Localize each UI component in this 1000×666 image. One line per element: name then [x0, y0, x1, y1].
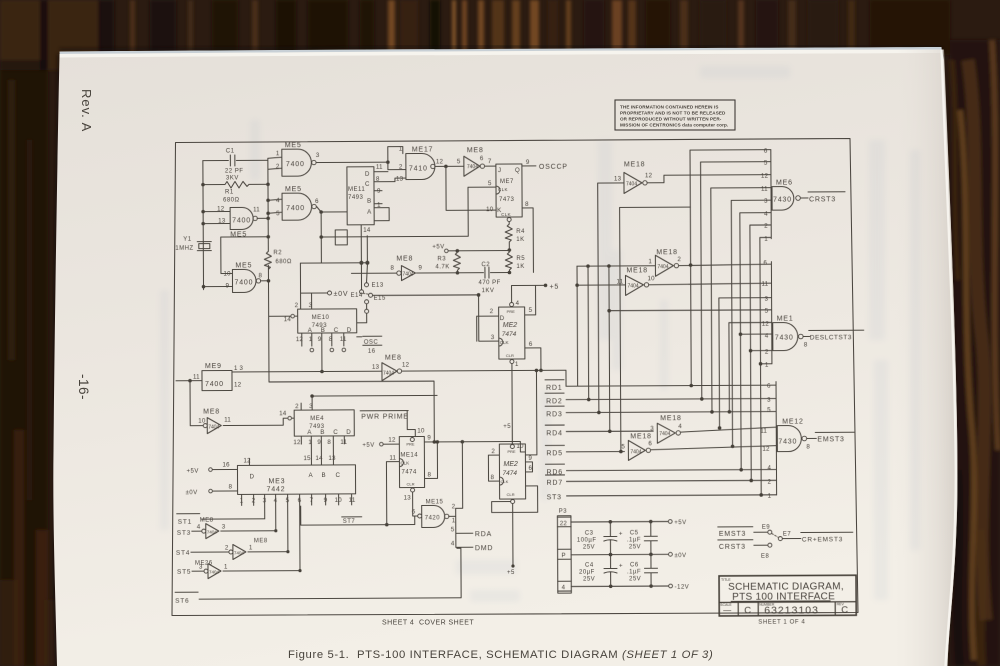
svg-text:11: 11 [224, 416, 231, 423]
svg-text:8: 8 [329, 336, 333, 343]
svg-text:CLK: CLK [400, 461, 409, 466]
svg-text:RD4: RD4 [546, 430, 562, 437]
node OSC/16 [357, 336, 362, 338]
wire ME5a out to ME17 [316, 147, 406, 170]
svg-text:1: 1 [764, 236, 768, 243]
svg-text:4: 4 [562, 584, 566, 591]
svg-text:5: 5 [451, 526, 455, 533]
svg-text:A: A [367, 209, 372, 216]
svg-text:7404: 7404 [234, 550, 245, 555]
svg-text:ST3: ST3 [547, 494, 562, 501]
wire ME2a Q [525, 285, 536, 315]
svg-text:2: 2 [399, 164, 403, 171]
svg-text:7: 7 [310, 497, 314, 504]
wire -12V row [571, 585, 668, 588]
svg-text:RDA: RDA [475, 531, 492, 538]
svg-text:E9: E9 [762, 525, 771, 531]
svg-text:9: 9 [317, 439, 321, 446]
svg-text:11: 11 [389, 455, 396, 462]
svg-text:3: 3 [491, 334, 495, 341]
wire 0V row [571, 553, 668, 556]
svg-text:+5: +5 [550, 284, 560, 291]
svg-text:Q: Q [515, 167, 520, 174]
svg-text:11: 11 [376, 164, 383, 171]
svg-text:5: 5 [767, 407, 771, 414]
svg-text:2: 2 [295, 302, 299, 309]
node RD4 [545, 425, 653, 432]
capacitor C3 [604, 522, 617, 555]
node DESLCTST3 [803, 330, 864, 336]
svg-text:13: 13 [614, 175, 622, 182]
svg-text:7493: 7493 [348, 195, 364, 201]
capacitor C4 [604, 555, 617, 587]
svg-text:6: 6 [480, 155, 484, 162]
svg-text:ME6: ME6 [776, 180, 793, 187]
svg-text:ME2: ME2 [503, 322, 518, 329]
svg-text:ME5: ME5 [285, 142, 302, 149]
page cast shadow on wood [53, 54, 59, 666]
svg-text:R5: R5 [516, 256, 525, 262]
node ST6 [175, 548, 461, 599]
svg-text:25V: 25V [583, 577, 595, 583]
svg-text:ME3: ME3 [269, 478, 286, 485]
node +-0V terminal [328, 291, 332, 295]
svg-text:2: 2 [252, 497, 256, 504]
svg-text:6: 6 [763, 260, 767, 267]
node DMD [456, 546, 473, 548]
svg-text:4: 4 [765, 333, 769, 340]
svg-text:ME17: ME17 [412, 146, 434, 153]
wire C1 top row [203, 157, 282, 184]
svg-text:7404: 7404 [402, 272, 413, 278]
svg-text:2: 2 [677, 256, 681, 263]
svg-text:14: 14 [315, 455, 323, 462]
node CRST3 [801, 192, 846, 198]
svg-text:ME18: ME18 [656, 249, 678, 256]
nand ME5 d [232, 269, 256, 292]
flip-flop ME2 7474 second [499, 444, 525, 499]
svg-text:±0V: ±0V [186, 490, 198, 496]
flip-flop ME2 7474 first [499, 307, 525, 359]
nand ME5 c [230, 207, 253, 229]
wire ME5b inputs [268, 184, 282, 251]
svg-text:DESLCTST3: DESLCTST3 [810, 334, 852, 341]
svg-text:15: 15 [303, 455, 311, 462]
svg-text:10: 10 [335, 497, 343, 504]
wire row y380 [269, 315, 435, 442]
svg-text:1: 1 [308, 439, 312, 446]
svg-text:ME8: ME8 [467, 147, 484, 154]
svg-text:E14: E14 [351, 293, 363, 299]
svg-text:B: B [321, 472, 325, 479]
svg-text:13: 13 [396, 176, 404, 183]
svg-text:4.7K: 4.7K [435, 264, 449, 270]
svg-text:RD1: RD1 [546, 385, 562, 392]
svg-text:5: 5 [457, 158, 461, 165]
svg-text:ME18: ME18 [660, 415, 682, 422]
svg-text:8: 8 [525, 201, 529, 208]
inverter ME8 a [464, 156, 480, 176]
node RD1 [545, 379, 776, 387]
svg-text:11: 11 [349, 497, 356, 504]
svg-text:ME14: ME14 [400, 453, 418, 459]
svg-text:ME8: ME8 [203, 409, 220, 416]
counter ME10 7493 [298, 309, 357, 333]
node PWR PRIME [360, 411, 415, 437]
svg-text:7400: 7400 [232, 217, 251, 224]
svg-text:ME4: ME4 [310, 416, 324, 422]
svg-text:RD3: RD3 [546, 411, 562, 418]
decoder ME3 7442 [237, 465, 355, 495]
wire ME14 Q out [424, 441, 525, 452]
svg-text:+: + [619, 530, 623, 537]
resistor R3 [453, 251, 460, 273]
svg-text:1: 1 [768, 493, 772, 500]
svg-text:11: 11 [340, 336, 347, 343]
svg-text:CLR: CLR [507, 492, 515, 497]
nand ME6 7430 [770, 150, 772, 239]
svg-text:OR REPRODUCED WITHOUT WRITTEN: OR REPRODUCED WITHOUT WRITTEN PER- [620, 117, 722, 122]
svg-text:8: 8 [804, 341, 808, 348]
node RD5 [545, 445, 624, 452]
svg-text:+5V: +5V [186, 469, 198, 475]
svg-text:13: 13 [404, 495, 412, 502]
wire ME17 out [435, 165, 463, 167]
wire ME14 CLR [411, 488, 415, 492]
capacitor C6 [644, 554, 657, 586]
svg-text:12: 12 [762, 446, 770, 453]
svg-text:4: 4 [276, 197, 280, 204]
svg-text:ST1: ST1 [178, 519, 192, 526]
wire ME2a CLR down to ME2b [510, 360, 514, 364]
svg-text:±0V: ±0V [334, 291, 349, 298]
wire ME5c [203, 211, 268, 223]
svg-text:1: 1 [249, 544, 253, 551]
svg-text:ME18: ME18 [626, 267, 648, 274]
svg-text:4: 4 [767, 465, 771, 472]
svg-text:12: 12 [762, 321, 770, 328]
svg-text:A: A [308, 472, 313, 479]
wire ME2b CLR to +5 [511, 500, 515, 504]
capacitor C2 [457, 267, 509, 278]
svg-text:5: 5 [621, 443, 625, 450]
svg-text:1K: 1K [516, 237, 524, 243]
svg-text:MISSION OF CENTRONICS data com: MISSION OF CENTRONICS data computer corp… [620, 123, 728, 128]
svg-text:6: 6 [767, 383, 771, 390]
inverter ME8 c [382, 363, 397, 381]
wire ME5b out to ME11 [317, 206, 348, 212]
svg-text:THE INFORMATION CONTAINED HERE: THE INFORMATION CONTAINED HEREIN IS [620, 105, 719, 110]
svg-text:3: 3 [316, 152, 320, 159]
svg-text:ME10: ME10 [312, 315, 330, 321]
svg-text:.1µF: .1µF [627, 537, 641, 543]
wire left rail [202, 161, 205, 290]
svg-text:D: D [346, 429, 351, 436]
wire ME14 pin11 [386, 462, 399, 525]
svg-text:C2: C2 [481, 262, 490, 268]
svg-text:ME5: ME5 [235, 262, 252, 269]
nand ME17 7410 [406, 153, 435, 179]
svg-text:9: 9 [526, 159, 530, 166]
node ST3 bus [567, 495, 777, 496]
capacitor C5 [644, 522, 657, 555]
node EMST3 jumper in [718, 527, 768, 533]
svg-text:CLR: CLR [506, 353, 514, 358]
svg-text:2: 2 [490, 308, 494, 315]
svg-text:E15: E15 [374, 296, 386, 302]
svg-text:12: 12 [761, 173, 769, 180]
svg-text:ME7: ME7 [500, 179, 514, 185]
svg-text:E8: E8 [761, 554, 770, 560]
nand ME9 7400 [202, 370, 232, 390]
svg-text:1: 1 [240, 497, 244, 504]
svg-text:ME8: ME8 [200, 518, 214, 524]
svg-text:ST7: ST7 [343, 519, 356, 525]
svg-text:P: P [561, 552, 565, 559]
connector P3 [557, 516, 571, 593]
svg-text:7410: 7410 [409, 165, 428, 172]
svg-text:1: 1 [399, 146, 403, 153]
svg-text:ME5: ME5 [285, 186, 302, 193]
svg-text:4: 4 [516, 300, 520, 307]
svg-text:ME8: ME8 [254, 538, 268, 544]
svg-text:13: 13 [328, 455, 336, 462]
svg-text:7442: 7442 [267, 486, 286, 493]
svg-text:9: 9 [324, 497, 328, 504]
svg-text:P3: P3 [559, 509, 568, 515]
svg-text:11: 11 [340, 439, 347, 446]
svg-text:9: 9 [418, 264, 422, 271]
svg-text:OSCCP: OSCCP [539, 164, 568, 171]
svg-text:2: 2 [452, 503, 456, 510]
svg-text:5: 5 [529, 307, 533, 314]
svg-text:9: 9 [318, 336, 322, 343]
svg-text:7404: 7404 [630, 449, 641, 455]
svg-text:R3: R3 [437, 256, 446, 262]
nand ME5 a [282, 149, 312, 176]
wire ME10 pin14 [269, 315, 298, 317]
svg-text:ME2: ME2 [503, 461, 518, 468]
svg-text:7474: 7474 [502, 331, 517, 338]
svg-text:3: 3 [263, 497, 267, 504]
svg-text:7430: 7430 [775, 335, 794, 342]
svg-text:5: 5 [764, 160, 768, 167]
svg-text:RD7: RD7 [547, 480, 563, 487]
wire mesh verticals [576, 266, 579, 386]
svg-text:20µF: 20µF [579, 570, 595, 576]
svg-text:C: C [841, 605, 848, 616]
svg-text:7400: 7400 [286, 205, 305, 212]
svg-text:7474: 7474 [502, 470, 517, 477]
svg-text:ME18: ME18 [624, 161, 646, 168]
svg-text:PRE: PRE [507, 449, 516, 454]
nand ME5 b [282, 193, 312, 220]
svg-text:100µF: 100µF [577, 538, 597, 544]
svg-text:63213103: 63213103 [764, 604, 819, 616]
svg-text:1: 1 [276, 150, 280, 157]
svg-text:D: D [347, 327, 352, 334]
svg-text:B: B [367, 198, 371, 205]
svg-text:2: 2 [225, 545, 229, 552]
wire ME1 rows [609, 309, 771, 312]
svg-text:7: 7 [488, 158, 492, 165]
svg-text:3: 3 [199, 564, 203, 571]
wire ME7 clk bottom [507, 218, 511, 222]
faint show-through smudges [160, 66, 920, 602]
wire ME2a Qbar [525, 348, 541, 371]
svg-text:14: 14 [279, 410, 287, 417]
svg-text:6: 6 [764, 148, 768, 155]
svg-text:CRST3: CRST3 [719, 544, 746, 551]
svg-text:PRE: PRE [507, 309, 516, 314]
svg-text:7404: 7404 [659, 431, 670, 437]
svg-text:12: 12 [645, 172, 653, 179]
svg-text:7420: 7420 [425, 515, 441, 521]
node RD7 [546, 474, 777, 482]
svg-text:3: 3 [764, 198, 768, 205]
svg-text:1: 1 [515, 361, 519, 368]
svg-text:8: 8 [806, 443, 810, 450]
svg-text:16: 16 [222, 461, 230, 468]
svg-text:+: + [619, 562, 623, 569]
svg-text:11: 11 [253, 206, 260, 213]
svg-text:J: J [498, 167, 501, 174]
svg-text:1K: 1K [516, 264, 524, 270]
svg-text:Y1: Y1 [183, 237, 192, 243]
svg-text:PROPRIETARY AND IS NOT TO BE R: PROPRIETARY AND IS NOT TO BE RELEASED [620, 111, 726, 116]
wire +5V row [571, 520, 668, 523]
node ST1 [177, 513, 265, 519]
svg-text:5: 5 [488, 180, 492, 187]
wire ME3 bottom pins [242, 494, 352, 571]
svg-text:3: 3 [222, 524, 226, 531]
svg-text:+5: +5 [507, 570, 515, 576]
svg-text:2: 2 [768, 479, 772, 486]
svg-text:CLK: CLK [501, 212, 511, 217]
svg-text:6: 6 [412, 509, 416, 516]
wire ME8c out [402, 370, 566, 455]
node EMST3 [807, 432, 855, 438]
svg-text:8: 8 [491, 474, 495, 481]
flip-flop ME7 7473 [496, 164, 522, 217]
svg-text:11: 11 [761, 281, 768, 288]
wire ME2a D [477, 316, 499, 341]
wire ME4 top pins [301, 395, 437, 410]
svg-text:10: 10 [516, 443, 524, 450]
svg-text:2: 2 [491, 448, 495, 455]
svg-text:1: 1 [224, 564, 228, 571]
svg-text:R4: R4 [516, 229, 525, 235]
svg-text:±0V: ±0V [674, 553, 686, 559]
wire ME18a out [647, 175, 771, 183]
svg-text:16: 16 [368, 349, 376, 355]
svg-text:7404: 7404 [209, 570, 220, 575]
svg-text:PRE: PRE [406, 442, 415, 447]
svg-text:4: 4 [764, 211, 768, 218]
wire jog rect [335, 230, 347, 245]
svg-text:1 3: 1 3 [234, 365, 244, 372]
svg-text:ME1: ME1 [777, 316, 794, 323]
svg-text:8: 8 [427, 471, 431, 478]
svg-text:-16-: -16- [76, 374, 91, 400]
svg-text:ST6: ST6 [175, 598, 189, 605]
svg-text:ME8: ME8 [385, 355, 402, 362]
svg-text:Rev. A: Rev. A [79, 89, 94, 132]
svg-text:3: 3 [765, 296, 769, 303]
title block [719, 575, 856, 616]
svg-text:ME26: ME26 [195, 561, 213, 567]
node ST7 [301, 506, 415, 526]
svg-text:D: D [365, 171, 370, 178]
svg-text:.1µF: .1µF [627, 569, 641, 575]
svg-text:14: 14 [284, 316, 292, 323]
node RD3 [545, 405, 776, 413]
wire ME15 out [448, 442, 463, 548]
svg-text:8: 8 [327, 439, 331, 446]
svg-text:11: 11 [193, 374, 200, 381]
svg-text:C4: C4 [585, 563, 594, 569]
svg-text:R1: R1 [225, 189, 234, 195]
svg-text:7400: 7400 [286, 161, 305, 168]
svg-text:DMD: DMD [475, 545, 493, 552]
resistor R2 [264, 251, 271, 269]
svg-text:7474: 7474 [401, 470, 417, 476]
svg-text:22 PF: 22 PF [225, 168, 244, 174]
svg-text:C6: C6 [630, 562, 639, 568]
svg-text:1: 1 [648, 258, 652, 265]
svg-text:7404: 7404 [208, 425, 219, 431]
svg-text:CLK: CLK [501, 479, 509, 484]
left margin grain [0, 60, 48, 666]
svg-text:10: 10 [647, 275, 655, 282]
svg-text:25V: 25V [629, 544, 641, 550]
svg-text:C: C [365, 181, 370, 188]
svg-text:C: C [744, 605, 751, 616]
svg-text:EMST3: EMST3 [719, 531, 746, 538]
svg-text:ME15: ME15 [426, 499, 444, 505]
svg-text:CLR: CLR [407, 482, 415, 487]
svg-text:9: 9 [528, 455, 532, 462]
svg-text:12: 12 [293, 439, 301, 446]
svg-text:C3: C3 [585, 531, 594, 537]
svg-text:+5V: +5V [432, 244, 444, 250]
svg-text:2: 2 [765, 349, 769, 356]
svg-text:7404: 7404 [207, 530, 218, 535]
svg-text:CR+EMST3: CR+EMST3 [802, 536, 843, 543]
wire ME2a pre to +5 [512, 285, 546, 302]
svg-text:+5V: +5V [674, 520, 686, 526]
svg-text:4: 4 [678, 423, 682, 430]
svg-text:680Ω: 680Ω [275, 259, 292, 265]
svg-text:8: 8 [229, 483, 233, 490]
svg-text:EMST3: EMST3 [817, 436, 844, 443]
svg-text:470 PF: 470 PF [478, 280, 500, 286]
svg-text:1MHZ: 1MHZ [175, 246, 193, 252]
svg-text:4: 4 [197, 524, 201, 531]
svg-text:6: 6 [298, 497, 302, 504]
svg-text:12: 12 [234, 381, 242, 388]
svg-text:2: 2 [764, 223, 768, 230]
wire E15 row to ME2 [373, 295, 499, 342]
svg-text:10: 10 [486, 206, 494, 213]
svg-text:12: 12 [388, 437, 396, 444]
resistor R4 [505, 224, 512, 250]
svg-text:12: 12 [436, 158, 444, 165]
svg-text:7430: 7430 [778, 439, 797, 446]
svg-text:D: D [249, 473, 254, 480]
svg-text:7404: 7404 [657, 264, 668, 270]
svg-text:22: 22 [560, 520, 568, 527]
